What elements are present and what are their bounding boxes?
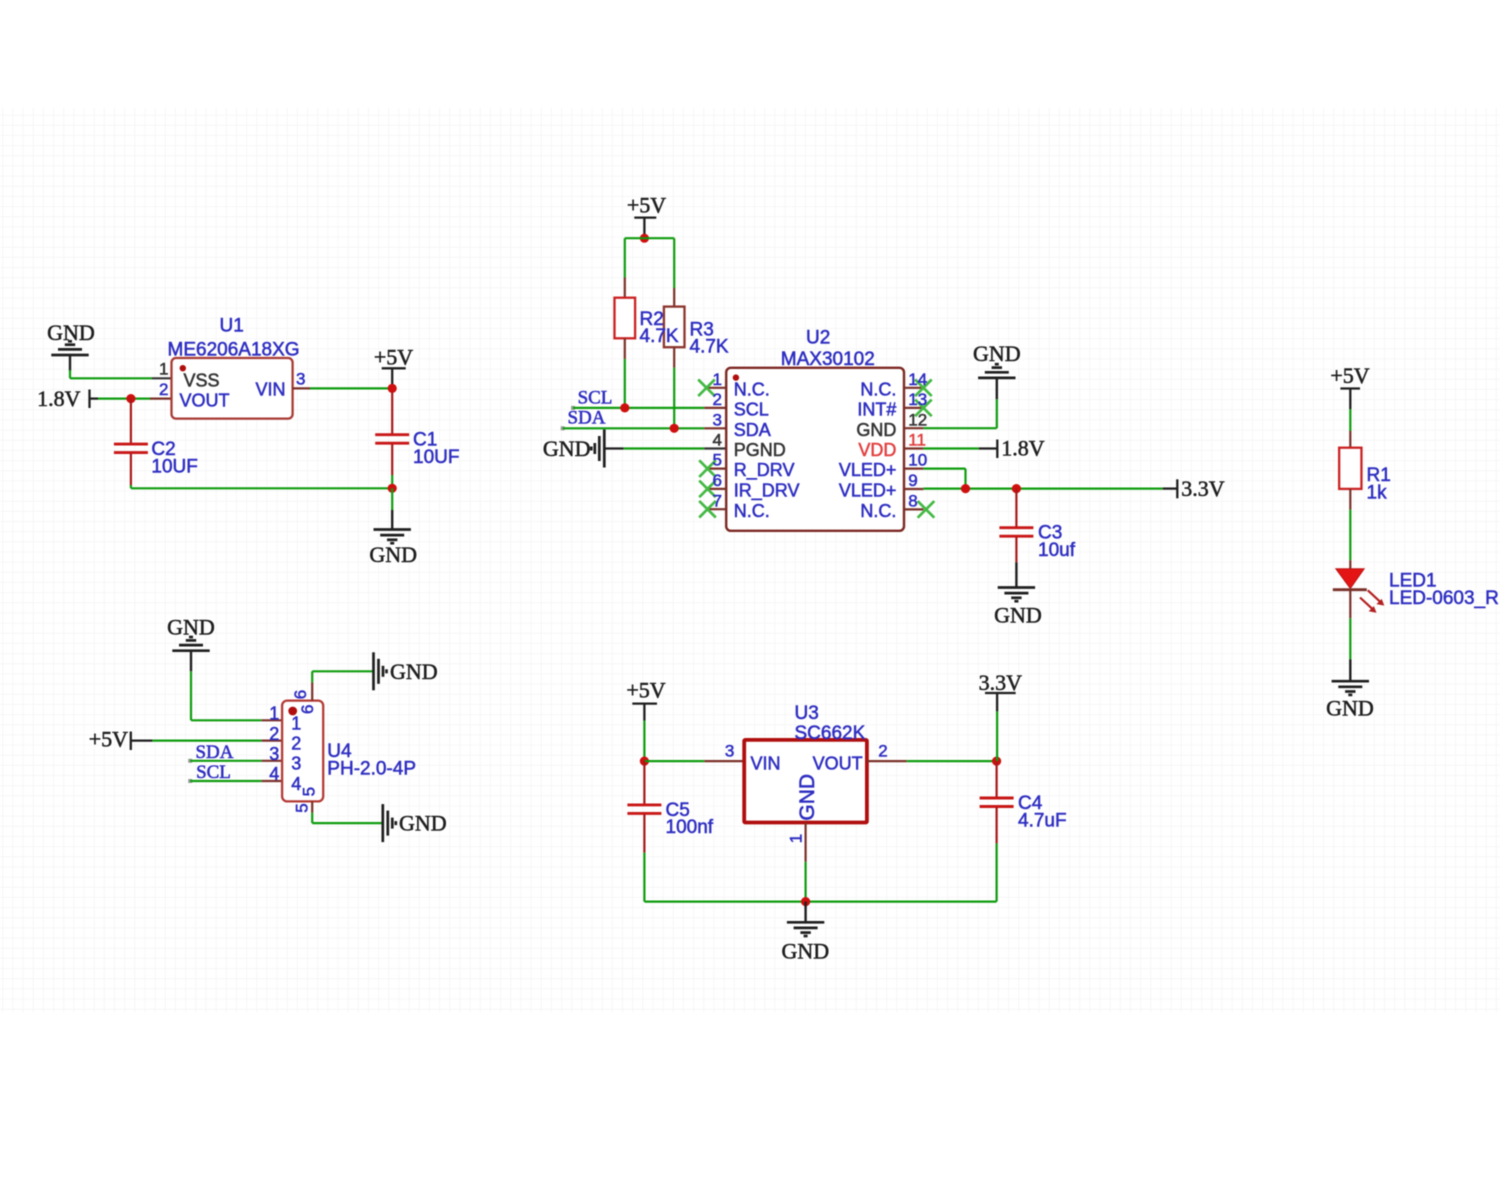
U4 inner pin number 3 [291,754,301,774]
power port +5V (R1) [1330,363,1369,409]
wire [1349,659,1351,681]
U2 pin 4 stub [704,447,726,449]
net port 3.3V (U3) [979,670,1023,711]
U3 pin 2 stub [867,760,907,762]
svg-text:+5V: +5V [627,193,666,218]
U2 pin 11 stub [904,447,923,449]
label C4 value 4.7uF [1018,793,1067,831]
U2 pin number 6 [713,471,722,490]
svg-text:5: 5 [293,803,312,812]
U2 pin number 1 [713,370,722,389]
U2 pin name VLED+ (right 468.6) [839,460,897,480]
svg-text:+5V: +5V [626,678,665,703]
U2 pin number 11 [908,431,926,450]
svg-text:SCL: SCL [734,400,769,420]
svg-text:N.C.: N.C. [860,501,896,521]
no-connect X [699,460,716,477]
connector U4 body PH-2.0-4P [282,701,323,802]
resistor R3 [664,307,685,348]
U2 pin 7 stub [707,508,727,510]
svg-text:1: 1 [291,714,301,734]
wire [624,359,626,408]
wire SCL (U4) [188,779,261,783]
U2 pin 13 stub [904,407,923,409]
U1 pin name VOUT [180,391,230,411]
wire [191,671,262,720]
U2 pin name N.C. (right 387.8) [860,379,896,399]
wire [907,760,997,762]
label C1 value 10UF [413,430,459,468]
svg-text:2: 2 [269,724,279,744]
svg-text:+5V: +5V [374,345,413,370]
U3 pin name GND (rotated) [796,774,819,821]
U4 pin number 3 (outside) [269,744,279,764]
U2 pin name IR_DRV (left 488.9) [734,481,800,502]
svg-text:U3: U3 [795,703,819,724]
net label SDA (U4) [195,742,233,763]
svg-text:5: 5 [713,451,722,470]
LED1 anode lead [1349,560,1351,570]
no-connect X [698,380,715,397]
R1 top lead [1349,431,1351,449]
svg-text:1: 1 [269,704,279,724]
svg-text:1: 1 [713,370,722,389]
U4 pin number 4 (outside) [269,764,279,784]
U2 pin name INT# (right 407.9) [857,400,896,420]
wire [625,238,645,277]
capacitor C3 [999,489,1033,588]
U2 pin number 7 [713,491,722,510]
svg-text:7: 7 [713,491,722,510]
svg-text:MAX30102: MAX30102 [781,349,875,370]
U2 pin 1 stub [707,387,727,389]
svg-text:3: 3 [291,754,301,774]
power port +5V (U4) [89,727,153,752]
svg-text:VSS: VSS [184,371,220,391]
label C2 value 10UF [151,439,197,477]
U2 pin number 8 [908,492,917,511]
U1 pin 2 stub [150,398,172,400]
U1 pin number 2 [159,380,168,399]
U2 pin number 14 [908,370,927,389]
svg-text:R_DRV: R_DRV [734,460,795,481]
svg-text:6: 6 [298,705,317,714]
R3 bottom lead [673,347,675,367]
svg-text:10UF: 10UF [151,456,197,477]
wire SDA (U4) [188,759,261,763]
U2 pin 9 stub [904,488,923,490]
svg-text:N.C.: N.C. [734,379,770,399]
U4 pin 2 stub [262,739,283,741]
resistor R1 [1339,448,1361,489]
wire (pin 12 to GND) [923,378,996,428]
svg-text:6: 6 [713,471,722,490]
U4 pin 6 stub [311,682,313,700]
U3 pin number 2 [878,742,887,761]
U2 pin 10 stub [904,468,923,470]
node junction [388,384,397,393]
svg-text:IR_DRV: IR_DRV [734,481,800,502]
svg-text:U2: U2 [806,328,830,349]
svg-text:ME6206A18XG: ME6206A18XG [168,340,300,361]
node junction [126,394,135,403]
label C5 value 100nf [666,800,714,838]
wire [644,238,674,288]
U4 pin number 1 (outside) [269,704,279,724]
label C3 value 10uf [1038,523,1076,561]
wire SCL [571,406,704,410]
wire [131,487,392,489]
regulator U3 body SC662K [744,740,867,823]
label U3 [795,703,866,744]
svg-text:SC662K: SC662K [795,723,866,744]
U2 pin number 10 [908,451,927,470]
svg-text:+5V: +5V [1330,363,1369,388]
svg-text:4.7K: 4.7K [690,337,729,358]
U4 pin 4 stub [262,780,283,782]
wire [391,488,393,529]
svg-text:14: 14 [908,370,927,389]
svg-text:VIN: VIN [255,380,285,400]
svg-text:100nf: 100nf [666,817,714,838]
node junction [961,484,970,493]
wire [1349,510,1351,561]
U4 inner pin number 5 [300,787,319,796]
svg-text:GND: GND [1326,696,1374,721]
svg-text:1: 1 [787,834,806,843]
capacitor C2 [114,399,148,489]
U1 pin number 1 [159,360,168,379]
svg-text:3: 3 [269,744,279,764]
U1 pin name VSS [184,371,220,391]
node junction [388,484,397,493]
power port +5V (U3) [626,678,665,721]
U4 pin 3 stub [262,760,283,762]
wire [1349,409,1351,431]
diode LED1 [1333,569,1367,590]
svg-text:GND: GND [543,436,591,461]
svg-text:8: 8 [908,492,917,511]
svg-text:GND: GND [856,420,896,440]
U2 pin 2 stub [704,407,726,409]
node junction [992,757,1001,766]
U1 pin name VIN [255,380,285,400]
svg-text:INT#: INT# [857,400,896,420]
svg-text:2: 2 [878,742,887,761]
no-connect X [915,400,932,417]
wire [804,862,806,902]
wire [310,387,392,389]
svg-text:VLED+: VLED+ [839,481,897,501]
svg-text:VOUT: VOUT [813,753,863,773]
ground GND (above U2 right) [973,341,1021,378]
U4 inner pin number 4 [291,774,301,794]
svg-text:4: 4 [269,764,279,784]
U4 pin number 5 (outside) [293,803,312,812]
svg-text:SDA: SDA [567,408,605,429]
U1 pin 1 stub [152,377,172,379]
U2 pin number 5 [713,451,722,470]
R3 top lead [673,288,675,308]
label R1 value 1k [1367,465,1391,503]
svg-text:1.8V: 1.8V [1001,436,1044,461]
label LED1 value LED-0603_R [1389,571,1499,610]
node junction [670,424,679,433]
svg-text:4.7K: 4.7K [640,326,679,347]
svg-text:SDA: SDA [195,742,233,763]
U4 inner pin number 6 [298,705,317,714]
U4 pin 5 stub [311,801,313,812]
U3 pin name VOUT [813,753,863,773]
no-connect X [915,380,932,397]
wire [804,902,806,923]
U2 pin 14 stub [904,387,923,389]
U2 pin name SCL (left 407.9) [734,400,769,420]
wire [70,370,152,378]
svg-text:PGND: PGND [734,440,786,460]
svg-text:4: 4 [713,431,722,450]
U3 pin number 1 (rotated) [787,834,806,843]
wire [312,671,373,682]
U2 pin name GND (right 428.2) [856,420,896,440]
svg-text:3: 3 [713,410,722,429]
U3 pin number 3 [725,742,734,761]
U2 pin number 2 [713,390,722,409]
svg-text:VLED+: VLED+ [839,460,897,480]
svg-text:12: 12 [908,410,927,429]
wire [1349,618,1351,659]
svg-text:4.7uF: 4.7uF [1018,810,1067,831]
wire (pin 10 down) [923,469,965,489]
svg-text:LED-0603_R: LED-0603_R [1389,588,1499,609]
U2 pin number 3 [713,410,722,429]
wire [996,711,998,761]
svg-text:2: 2 [291,733,301,753]
U2 pin number 13 [908,390,927,409]
svg-text:VIN: VIN [751,753,781,773]
wire (pin 11 to 1.8V) [923,447,997,449]
U3 pin name VIN [751,753,781,773]
U3 pin 3 stub [704,760,744,762]
ground GND (net port, U2 PGND) [543,430,604,468]
U4 inner pin number 2 [291,733,301,753]
ground GND (U4 pin 5) [383,804,447,842]
U2 pin name PGND (left 448.5) [734,440,786,460]
svg-text:+5V: +5V [89,727,128,752]
net port 3.3V [1177,476,1225,501]
svg-text:10: 10 [908,451,927,470]
U3 pin 1 stub [804,823,806,862]
svg-text:6: 6 [291,690,310,699]
U2 pin name N.C. (left 509.2) [734,501,770,521]
U2 pin name VDD (right 448.5) [858,440,896,460]
IC U2 body MAX30102 [726,368,904,531]
U2 pin number 9 [908,471,917,490]
power port +5V (R2 R3) [627,193,666,239]
wire PGND [604,447,704,449]
U2 pin 6 stub [707,488,727,490]
U1 pin 3 stub [293,387,310,389]
svg-text:3: 3 [296,370,305,389]
svg-text:3: 3 [725,742,734,761]
ground GND (net port, U1 VSS) [47,320,95,371]
U2 pin 5 stub [707,468,727,470]
svg-text:3.3V: 3.3V [979,670,1023,695]
op-amp U1 body ME6206A18XG [172,358,293,419]
R2 top lead [624,278,626,299]
svg-text:1.8V: 1.8V [37,386,81,411]
svg-text:N.C.: N.C. [860,379,896,399]
ground GND (below LED1) [1326,681,1374,720]
U4 pin number 2 (outside) [269,724,279,744]
no-connect X [699,501,716,518]
ground GND (below C3) [994,588,1042,628]
ground GND (above U4) [167,615,215,672]
svg-text:GND: GND [973,341,1021,366]
U2 pin number 4 [713,431,722,450]
ground GND (below C1) [369,530,417,568]
U2 pin 12 stub [904,427,923,429]
svg-text:GND: GND [994,603,1042,628]
svg-text:13: 13 [908,390,927,409]
ground GND (U4 pin 6) [374,652,438,690]
capacitor C4 [980,761,1014,902]
wire [673,368,675,429]
node junction [620,403,629,412]
svg-text:3.3V: 3.3V [1181,476,1225,501]
svg-text:9: 9 [908,471,917,490]
node junction [640,757,649,766]
net port 1.8V [37,386,98,411]
U1 pin number 3 [296,370,305,389]
svg-text:2: 2 [159,380,168,399]
wire SDA [561,426,705,430]
U4 pin 1 stub [262,719,283,721]
U2 pin name N.C. (right 509.4) [860,501,896,521]
wire [644,760,704,762]
resistor R2 [615,298,636,339]
net label SCL [578,387,613,408]
svg-text:GND: GND [796,774,819,821]
svg-text:2: 2 [713,390,722,409]
no-connect X [699,481,716,498]
svg-text:N.C.: N.C. [734,501,770,521]
label R2 value 4.7K [640,309,679,347]
svg-text:11: 11 [908,431,926,450]
svg-text:VOUT: VOUT [180,391,230,411]
ground GND (below U3) [781,922,829,963]
net port 1.8V (VDD) [997,436,1044,461]
svg-text:1k: 1k [1367,482,1388,503]
U2 pin 3 stub [704,427,726,429]
svg-text:GND: GND [390,659,438,684]
wire [643,721,645,762]
svg-text:GND: GND [399,811,447,836]
LED1 cathode lead [1349,590,1351,619]
wire [98,398,150,400]
wire [312,813,383,824]
svg-text:5: 5 [300,787,319,796]
capacitor C5 [627,761,661,902]
label U4 [327,741,416,779]
wire (pin 9 / 3.3V rail) [923,488,1177,490]
node junction [801,897,810,906]
U2 pin name VLED+ (right 489) [839,481,897,501]
svg-text:10UF: 10UF [413,447,459,468]
label R3 value 4.7K [690,320,729,358]
svg-text:GND: GND [369,542,417,567]
U2 pin number 12 [908,410,927,429]
net label SCL (U4) [196,762,231,783]
svg-text:1: 1 [159,360,168,379]
svg-text:SDA: SDA [734,420,771,440]
wire (bottom rail) [644,900,996,902]
svg-text:U1: U1 [220,316,244,337]
power port +5V (U1) [374,345,413,389]
net label SDA [567,408,605,429]
svg-text:GND: GND [781,939,829,964]
U2 pin name N.C. (left 387.8) [734,379,770,399]
R2 bottom lead [624,338,626,359]
svg-text:SCL: SCL [578,387,613,408]
U2 pin 8 stub [904,508,923,510]
R1 bottom lead [1349,489,1351,510]
node junction [640,234,649,243]
U2 pin name SDA (left 428.2) [734,420,771,440]
no-connect X [918,501,935,518]
U2 pin name R_DRV (left 468.6) [734,460,795,481]
node junction [1012,484,1021,493]
label U1 [168,316,300,361]
svg-text:VDD: VDD [858,440,896,460]
svg-text:10uf: 10uf [1038,540,1076,561]
capacitor C1 [375,392,409,488]
wire [152,739,261,741]
LED1 emission arrows [1360,590,1384,613]
U4 inner pin number 1 [291,714,301,734]
U4 pin number 6 (outside) [291,690,310,699]
svg-text:PH-2.0-4P: PH-2.0-4P [327,758,416,779]
label U2 [781,328,875,371]
